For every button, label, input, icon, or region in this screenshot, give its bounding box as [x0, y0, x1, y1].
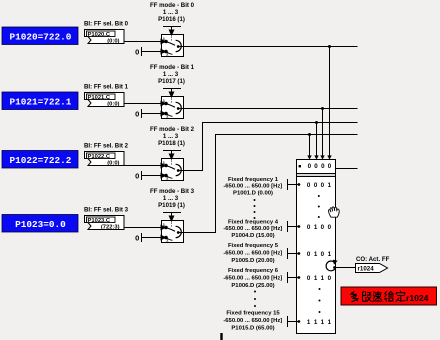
svg-text:BI: FF sel. Bit 1: BI: FF sel. Bit 1: [84, 84, 129, 91]
svg-text:-650.00 ... 650.00 [Hz]: -650.00 ... 650.00 [Hz]: [223, 184, 282, 190]
svg-text:FF mode - Bit 2: FF mode - Bit 2: [150, 126, 195, 133]
binector input P1020 symbol: [85, 30, 125, 44]
wire constant 0 to switch: [142, 51, 162, 53]
annotation box P1023: [2, 215, 78, 233]
wire constant 0 to switch: [142, 175, 162, 177]
svg-text:0: 0: [135, 47, 139, 56]
svg-text:Fixed frequency 5: Fixed frequency 5: [228, 243, 279, 249]
svg-text:0: 0: [307, 251, 311, 258]
selector interior ellipsis lower: [319, 288, 321, 313]
switch U2 wiper travel arc: [176, 102, 182, 113]
svg-text:P1021.C: P1021.C: [88, 95, 111, 101]
svg-text:1: 1: [314, 224, 318, 231]
selector box: [297, 160, 336, 334]
switch U1 pin 1 contact: [161, 36, 167, 44]
label Fixed frequency 6: [223, 268, 282, 289]
switch U1 wiper lever: [166, 42, 175, 46]
switch U3 output contact: [177, 169, 180, 172]
selector row 15 code 1 1 1 1: [307, 319, 332, 326]
svg-text:Fixed frequency 1: Fixed frequency 1: [228, 177, 279, 183]
junction bit1: [321, 107, 324, 110]
red annotation box: [341, 287, 437, 305]
svg-text:-650.00 ... 650.00 [Hz]: -650.00 ... 650.00 [Hz]: [223, 318, 282, 324]
constant 0 source: [135, 171, 141, 180]
label Fixed frequency 5: [223, 243, 282, 264]
svg-text:P1017 (1): P1017 (1): [158, 78, 185, 85]
switch U3 wiper travel arc: [176, 164, 182, 175]
svg-text:0: 0: [328, 224, 332, 231]
switch U2 output contact: [177, 107, 180, 110]
wire constant 0 to switch: [142, 237, 162, 239]
wire P1023 to switch input 1: [124, 227, 161, 229]
svg-text:(722:3): (722:3): [101, 224, 120, 230]
svg-text:P1022=722.2: P1022=722.2: [10, 155, 72, 166]
switch U3 control T-bar and arrow: [163, 151, 181, 166]
svg-text:r1024: r1024: [358, 265, 375, 272]
svg-text:0: 0: [308, 163, 312, 170]
wire bit1 drop to selector: [322, 109, 324, 156]
svg-text:P1023=0.0: P1023=0.0: [15, 219, 66, 230]
arrowhead bit1 into selector: [320, 155, 324, 159]
connector output flag r1024: [356, 264, 388, 273]
annotation box P1022: [2, 151, 78, 169]
rotary selector arrow: [326, 261, 335, 271]
svg-text:0: 0: [328, 163, 332, 170]
selector header bits 0 0 0 0: [308, 163, 332, 170]
label column ellipsis upper: [254, 199, 256, 219]
wire to r1024 flag: [335, 267, 356, 269]
label column ellipsis lower: [254, 291, 256, 308]
wire switch U3 output (right, up, right): [179, 123, 358, 171]
label Fixed frequency 1: [223, 177, 282, 196]
constant 0 source: [135, 233, 141, 242]
svg-text:P1016 (1): P1016 (1): [158, 16, 185, 23]
svg-text:0: 0: [307, 224, 311, 231]
svg-text:0: 0: [321, 224, 325, 231]
switch U4 output contact: [177, 231, 180, 234]
svg-text:P1023.C: P1023.C: [88, 218, 111, 224]
selector row 4 input bracket: [288, 221, 298, 232]
wire switch U4 output (right, up, right): [179, 135, 358, 233]
switch U4 label "FF mode - Bit 3": [150, 188, 195, 209]
arrowhead bit0 into selector: [327, 155, 331, 159]
binector input P1022 symbol: [85, 152, 125, 166]
switch U3 idle lever from pin 2: [167, 176, 173, 178]
svg-text:1: 1: [314, 251, 318, 258]
switch U2 pin 2 contact: [161, 111, 169, 118]
label Fixed frequency 4: [223, 220, 282, 239]
svg-text:(0:0): (0:0): [107, 101, 119, 107]
svg-text:P1015.D (65.00): P1015.D (65.00): [231, 325, 274, 331]
switch U3 wiper lever: [166, 166, 175, 170]
svg-text:P1005.D (20.00): P1005.D (20.00): [231, 258, 274, 264]
switch U3 label "FF mode - Bit 2": [150, 126, 195, 147]
svg-text:0: 0: [135, 171, 139, 180]
constant 0 source: [135, 109, 141, 118]
svg-text:1 ... 3: 1 ... 3: [163, 71, 179, 78]
switch U1 pin 2 contact: [161, 49, 169, 56]
svg-text:1: 1: [321, 275, 325, 282]
svg-text:0: 0: [328, 275, 332, 282]
svg-text:1 ... 3: 1 ... 3: [163, 9, 179, 16]
svg-text:-650.00 ... 650.00 [Hz]: -650.00 ... 650.00 [Hz]: [223, 226, 282, 232]
svg-text:(0:0): (0:0): [107, 38, 119, 44]
switch U1 idle lever from pin 2: [167, 52, 173, 54]
switch U4 control T-bar and arrow: [163, 213, 181, 228]
switch U1 output contact: [177, 45, 180, 48]
svg-text:P1021=722.1: P1021=722.1: [10, 97, 72, 108]
switch U4 box: [162, 221, 184, 243]
switch U2 box: [162, 97, 184, 119]
svg-text:P1020=722.0: P1020=722.0: [10, 32, 72, 43]
selector row 5 input bracket: [288, 248, 298, 259]
svg-text:0: 0: [321, 163, 325, 170]
selector row 6 code 0 1 1 0: [307, 275, 332, 282]
selector row 6 input bracket: [288, 272, 298, 283]
svg-text:1: 1: [328, 251, 332, 258]
svg-text:1: 1: [307, 319, 311, 326]
svg-text:BI: FF sel. Bit 0: BI: FF sel. Bit 0: [84, 21, 129, 28]
svg-text:FF mode - Bit 1: FF mode - Bit 1: [150, 64, 195, 71]
svg-text:0: 0: [135, 109, 139, 118]
annotation box P1021: [2, 92, 78, 110]
svg-text:Fixed frequency 4: Fixed frequency 4: [228, 220, 279, 226]
output contact r1024: [333, 266, 336, 269]
junction bit3: [308, 133, 311, 136]
hand cursor: [329, 207, 340, 217]
wire switch U2 output bus: [179, 108, 358, 110]
switch U2 label "FF mode - Bit 1": [150, 64, 195, 85]
svg-text:0: 0: [307, 182, 311, 189]
switch U4 idle lever from pin 2: [167, 238, 173, 240]
wire selector header stub: [336, 168, 358, 170]
switch U2 wiper lever: [166, 104, 175, 108]
switch U1 wiper travel arc: [176, 40, 182, 51]
svg-text:0: 0: [314, 163, 318, 170]
svg-text:0: 0: [307, 275, 311, 282]
selector row 5 code 0 1 0 1: [307, 251, 332, 258]
constant 0 source: [135, 47, 141, 56]
switch U2 pin 1 contact: [161, 98, 167, 106]
switch U1 box: [162, 35, 184, 57]
wire bit2 drop to selector: [316, 123, 318, 156]
arrowhead bit2 into selector: [314, 155, 318, 159]
svg-text:0: 0: [314, 182, 318, 189]
svg-text:FF mode - Bit 0: FF mode - Bit 0: [150, 2, 195, 9]
switch U4 pin 1 contact: [161, 222, 167, 230]
selector interior ellipsis upper: [318, 195, 320, 218]
svg-text:-650.00 ... 650.00 [Hz]: -650.00 ... 650.00 [Hz]: [223, 275, 282, 281]
page edge tick: [220, 333, 222, 340]
switch U3 pin 1 contact: [161, 160, 167, 168]
svg-text:-650.00 ... 650.00 [Hz]: -650.00 ... 650.00 [Hz]: [223, 250, 282, 256]
svg-text:Fixed frequency 6: Fixed frequency 6: [228, 268, 279, 274]
selector header bit marker: [299, 165, 301, 167]
svg-text:P1022.C: P1022.C: [88, 154, 111, 160]
switch U3 box: [162, 159, 184, 181]
svg-text:0: 0: [321, 182, 325, 189]
selector row 1 code 0 0 0 1: [307, 182, 332, 189]
wire bit0 drop to selector: [329, 47, 331, 156]
svg-text:1: 1: [328, 319, 332, 326]
wire switch U1 output bus: [179, 46, 358, 48]
label Fixed frequency 15: [223, 311, 282, 332]
arrowhead bit3 into selector: [307, 155, 311, 159]
svg-text:P1019 (1): P1019 (1): [158, 202, 185, 209]
annotation box P1020: [2, 27, 78, 45]
wire bit3 drop to selector: [309, 135, 311, 156]
switch U2 control T-bar and arrow: [163, 89, 181, 104]
svg-text:0: 0: [135, 233, 139, 242]
wire P1021 to switch input 1: [124, 103, 161, 105]
switch U4 pin 2 contact: [161, 235, 169, 242]
switch U1 control T-bar and arrow: [163, 27, 181, 42]
wire constant 0 to switch: [142, 113, 162, 115]
svg-text:(0:0): (0:0): [107, 160, 119, 166]
switch U1 label "FF mode - Bit 0": [150, 2, 195, 23]
wire P1022 to switch input 1: [124, 165, 161, 167]
svg-text:P1018 (1): P1018 (1): [158, 140, 185, 147]
switch U2 idle lever from pin 2: [167, 114, 173, 116]
switch U4 wiper travel arc: [176, 226, 182, 237]
wire P1020 to switch input 1: [124, 41, 161, 43]
selector row 15 input bracket: [288, 316, 298, 327]
selector row 1 input bracket: [288, 179, 298, 190]
junction bit2: [315, 121, 318, 124]
svg-text:1: 1: [321, 319, 325, 326]
red box text 多段速给定 r1024: [351, 292, 357, 297]
svg-text:P1004.D (15.00): P1004.D (15.00): [231, 233, 274, 239]
svg-text:BI: FF sel. Bit 3: BI: FF sel. Bit 3: [84, 207, 129, 214]
svg-text:BI: FF sel. Bit 2: BI: FF sel. Bit 2: [84, 143, 129, 150]
svg-text:CO: Act. FF: CO: Act. FF: [356, 256, 390, 263]
svg-text:P1001.D (0.00): P1001.D (0.00): [233, 190, 273, 196]
svg-text:1 ... 3: 1 ... 3: [163, 133, 179, 140]
selector separator double line: [297, 174, 335, 177]
svg-text:1: 1: [314, 275, 318, 282]
svg-text:P1006.D (25.00): P1006.D (25.00): [231, 283, 274, 289]
svg-text:FF mode - Bit 3: FF mode - Bit 3: [150, 188, 195, 195]
binector input P1023 symbol: [85, 216, 125, 230]
svg-text:r1024: r1024: [406, 293, 429, 303]
selector row 4 code 0 1 0 0: [307, 224, 332, 231]
svg-text:P1020.C: P1020.C: [88, 32, 111, 38]
svg-text:0: 0: [321, 251, 325, 258]
svg-text:1 ... 3: 1 ... 3: [163, 195, 179, 202]
svg-text:1: 1: [314, 319, 318, 326]
svg-text:1: 1: [328, 182, 332, 189]
binector input P1021 symbol: [85, 93, 125, 107]
svg-text:Fixed frequency 15: Fixed frequency 15: [226, 311, 280, 317]
switch U3 pin 2 contact: [161, 173, 169, 180]
switch U4 wiper lever: [166, 228, 175, 232]
junction bit0: [328, 45, 331, 48]
